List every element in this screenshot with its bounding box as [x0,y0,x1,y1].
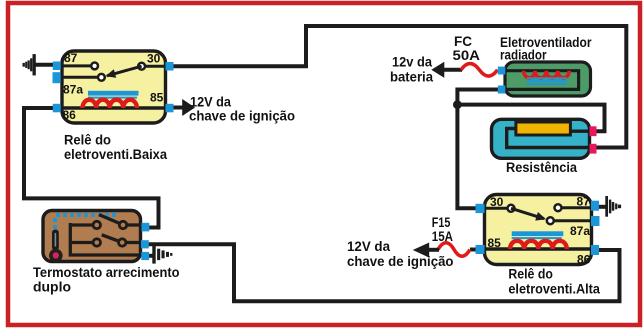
relay K1 contact circle 30 [138,63,145,70]
relay K1 coil blue bar [88,91,139,99]
fuse F15 15A (red wavy wire) [438,243,470,257]
relay K1 terminal tab 87a [53,72,61,83]
relay K2 contact circle 87 [555,204,562,211]
wire from thermostat middle terminal to relay K2 pin 86 (bottom run) [148,244,620,301]
node junction dot [453,100,462,109]
arrow 12V ignition (top) [182,99,195,116]
svg-text:12V da: 12V da [190,95,231,110]
wire node to resistor pack upper terminal [457,105,604,132]
relay K2 common contact circle 87a [547,217,554,224]
relay K2 body (Rele do eletroventi.Alta) [485,195,592,265]
svg-text:50A: 50A [453,48,481,63]
wire from thermostat lower terminal to ground G2 [148,254,154,258]
thermostat thermometer bulb [49,249,63,263]
fan motor M1 body (Eletroventilador radiador) [505,62,591,96]
relay K2 coil blue bar [512,231,564,239]
relay K1 coil red windings [83,100,137,108]
relay K1 pin label 87a [63,82,83,96]
ground G3 (right of relay K2) [605,196,621,217]
ground G2 (right of thermostat) [152,245,172,263]
relay K2 pin label 86 [577,252,591,266]
svg-text:radiador: radiador [500,47,547,62]
svg-text:bateria: bateria [390,69,433,84]
wire from ground to relay K1 pin 87 [34,63,56,67]
relay K1 pin label 86 [63,108,77,122]
label resistor pack [506,160,577,175]
relay K1 terminal tab 85 [166,104,174,113]
ground G1 (left of relay K1) [23,54,36,75]
wire relay K2 pin 85 stub to fuse F15 [470,248,477,252]
relay K2 coil wire 85-86 [485,247,592,250]
svg-text:eletroventi.Baixa: eletroventi.Baixa [64,147,167,162]
relay K2 pin label 30 [490,195,504,209]
relay K1 wire pin87a to common contact [62,76,97,79]
relay K2 wire contact 87a to edge [555,219,592,222]
fan motor terminal tab upper [498,67,506,75]
relay K1 switch arm [105,66,141,78]
resistor pack heating element (yellow) [516,122,571,135]
svg-text:86: 86 [577,252,591,266]
fan motor inner winding loop [504,71,579,90]
thermostat terminal tab middle [141,240,149,248]
relay K2 terminal tab 86 [591,245,599,255]
thermostat S1 body (Termostato arrecimento duplo) [43,211,141,262]
relay K1 pin label 85 [150,91,164,105]
thermostat upper switch wire left [70,223,93,226]
fan motor blue core lines [527,77,567,85]
thermostat lower switch wire left [70,241,93,244]
svg-text:85: 85 [150,91,164,105]
svg-text:30: 30 [147,52,161,66]
thermostat upper switch wire to tab [127,223,142,226]
thermostat terminal tab lower [141,252,149,260]
label 12V ignition top [189,95,295,124]
thermostat lower switch wire to tab [127,241,143,244]
svg-text:F15: F15 [432,215,451,230]
relay K2 contact circle 30 [508,205,515,212]
svg-text:86: 86 [63,108,77,122]
label relay K2 [508,267,600,297]
wire stub relay K1 pin 85 to ignition arrow [172,106,184,110]
fuse FC 50A (red wavy wire) [461,64,498,77]
relay K1 terminal tab 30 [166,62,174,71]
label 12V ignition bottom [347,239,454,269]
wire fan motor lower terminal to node and relay K2 pin 30 [457,90,499,209]
svg-text:87a: 87a [570,224,590,238]
wire relay K2 pin 87 to ground G3 [598,205,607,209]
thermostat lower switch contact right [119,239,126,246]
relay K2 pin label 87 [577,194,591,208]
thermostat upper switch contact right [119,221,126,228]
svg-text:12v da: 12v da [392,55,432,70]
thermostat lower switch contact left [93,239,100,246]
relay K1 contact circle 87 [91,63,98,70]
svg-text:87: 87 [64,51,78,65]
thermostat upper switch blade [99,215,121,224]
relay K1 pin label 30 [147,52,161,66]
relay K2 pin label 85 [488,236,502,250]
thermostat terminal tab upper [142,223,150,232]
wire from relay K1 pin 86 to thermostat upper terminal [24,108,159,228]
relay K2 switch arm [511,208,546,220]
label thermostat [33,265,180,294]
svg-text:Relê do: Relê do [508,267,553,282]
wire battery arrow to fuse FC [443,68,462,72]
relay K2 terminal tab 87 [591,201,599,211]
fan motor terminal tab lower [498,86,506,94]
svg-text:FC: FC [454,34,472,49]
label fuse FC 50A [453,34,481,63]
relay K2 terminal tab 85 [476,245,485,254]
relay K1 common contact circle 87a [98,74,105,81]
relay K1 terminal tab 87 [53,62,61,71]
svg-text:87a: 87a [63,82,83,96]
label 12v battery [390,55,433,85]
label fan motor [500,35,592,62]
resistor pack wire upper terminal to element [566,129,592,132]
arrow 12V ignition (bottom) [413,243,429,258]
wire from relay K1 pin 30 to resistor pack lower terminal (top run) [172,26,626,148]
resistor pack terminal tab upper [590,126,597,136]
relay K2 pin label 87a [570,224,590,238]
svg-text:Termostato arrecimento: Termostato arrecimento [33,265,180,280]
relay K2 wire pin30 to contact [485,207,508,210]
fan motor red winding arcs [524,71,570,78]
thermostat thermometer stem [52,230,59,251]
svg-text:Relê do: Relê do [64,133,111,148]
svg-text:15A: 15A [432,229,453,244]
label fuse F15 15A [432,215,453,244]
wire fuse F15 to ignition arrow (bottom) [428,248,439,252]
resistor pack wire element left leg and bottom run [507,129,592,148]
relay K1 coil wire 86-85 [62,106,166,109]
relay K2 terminal tab 87a [591,216,600,226]
thermostat capillary dashed line vertical [53,218,57,231]
label relay K1 [64,133,167,162]
svg-text:chave de ignição: chave de ignição [189,108,295,123]
thermostat upper switch contact left [93,221,100,228]
relay K1 body (Rele do eletroventi.Baixa) [62,51,166,123]
svg-text:eletroventi.Alta: eletroventi.Alta [508,281,600,296]
relay K2 terminal tab 30 [476,204,485,213]
thermostat common bus [70,223,142,255]
relay K1 pin label 87 [64,51,78,65]
svg-text:12V da: 12V da [347,239,390,254]
arrow 12v battery feed [431,62,444,78]
relay K1 wire pin87 to contact [62,64,91,67]
thermostat lower switch blade [102,235,121,242]
thermostat capillary dashed line horizontal [56,213,117,217]
svg-text:Resistência: Resistência [506,160,577,175]
relay K1 terminal tab 86 [53,104,61,113]
relay K1 wire 30 contact to edge [146,65,166,68]
svg-text:duplo: duplo [33,279,71,294]
relay K2 wire contact 87 to edge [562,206,591,209]
resistor pack R1 body (Resistencia) [492,119,590,158]
resistor pack terminal tab lower [590,144,597,154]
relay K2 coil red windings [510,241,567,249]
svg-text:chave de ignição: chave de ignição [347,254,454,269]
